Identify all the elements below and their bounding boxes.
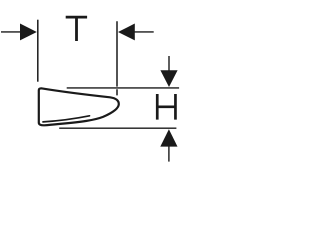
T dimension right extension line: [116, 21, 118, 95]
T dimension left arrowhead: [20, 24, 37, 41]
H dimension up arrowhead: [160, 129, 177, 146]
H dimension bottom extension line: [59, 127, 176, 129]
T dimension right arrow tail: [135, 31, 154, 33]
label H: [156, 94, 177, 120]
object outline (side profile): [39, 88, 119, 125]
label T: [66, 16, 87, 41]
H dimension down arrowhead: [160, 70, 177, 87]
T dimension right arrowhead: [118, 24, 135, 41]
T dimension left arrow tail: [1, 31, 21, 33]
H dimension top extension line: [67, 87, 179, 89]
H dimension up arrow tail: [168, 146, 170, 162]
T dimension left extension line: [37, 20, 39, 82]
inner seam line: [43, 116, 90, 122]
H dimension down arrow tail: [168, 56, 170, 71]
